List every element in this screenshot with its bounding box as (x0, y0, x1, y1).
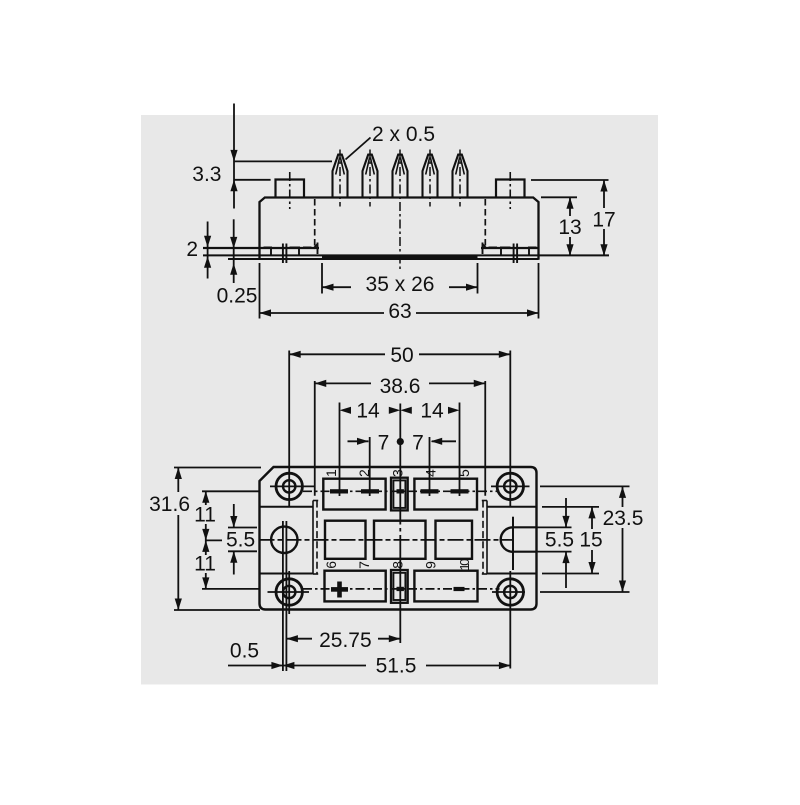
top view: pin 4 inner tip lines (426, 158, 435, 175)
dimension 23.5 (540, 485, 630, 487)
svg-text:38.6: 38.6 (380, 375, 421, 398)
dimension 0.5 (228, 665, 283, 667)
top view: pin 5 centerline (459, 150, 461, 207)
bottom view: vertical centerline lower (399, 535, 401, 643)
svg-text:7: 7 (356, 561, 372, 569)
bottom view: terminal pad 8 outer (391, 570, 408, 603)
svg-text:14: 14 (356, 400, 380, 423)
top view: right boss centerline (509, 172, 511, 209)
extension line pin5 column (459, 403, 461, 497)
bottom view: minus mark terminal 10 (454, 587, 465, 591)
svg-text:2 x 0.5: 2 x 0.5 (372, 123, 435, 146)
top view: left substrate edge (dashed) (314, 199, 316, 246)
top view: left boss centerline (289, 172, 291, 209)
svg-text:2: 2 (356, 469, 372, 477)
svg-text:63: 63 (388, 300, 411, 323)
svg-text:23.5: 23.5 (603, 507, 644, 530)
dimension 2 line and arrows (207, 222, 209, 279)
svg-text:14: 14 (420, 400, 444, 423)
svg-text:5.5: 5.5 (545, 529, 574, 552)
bottom view: center pad square 1 (325, 521, 366, 559)
extension line 38.6 left (314, 381, 316, 496)
extension line pin4 column (429, 437, 431, 496)
dimension 17 (531, 179, 609, 181)
bottom view: right lower band line (487, 573, 537, 575)
bottom view: terminal pad 4-5 (414, 479, 477, 510)
bottom view: terminal pad 3 inner (393, 480, 405, 508)
svg-text:1: 1 (323, 469, 339, 477)
top view: case bottom line left (203, 247, 319, 249)
top view: left mounting boss tab (276, 180, 305, 198)
bottom view: right upper band line (487, 506, 537, 508)
bottom view: right open slot (501, 527, 513, 552)
top view: pin 2 inner tip lines (366, 158, 375, 175)
bottom view: left upper band line (260, 506, 314, 508)
svg-text:11: 11 (194, 553, 216, 576)
svg-text:2: 2 (186, 238, 198, 261)
bottom view: terminal pad 1-2 (323, 479, 385, 510)
top view: pin 4 outline (423, 155, 438, 198)
top view: right foot cross-section marks (489, 248, 537, 256)
svg-text:15: 15 (579, 529, 602, 552)
dimension 13 (541, 196, 577, 198)
bottom view: top-left mounting hole (276, 473, 302, 499)
top view: pin 3 centerline (399, 150, 401, 271)
center reference dot (397, 438, 404, 445)
top view: 35x26 thermal contact area (thick bar) (322, 255, 478, 260)
bottom view: top-right mounting hole (497, 473, 523, 499)
bottom view: substrate dashed outline right (486, 501, 488, 575)
bottom view: vertical centerline upper (399, 404, 401, 525)
dimension 50 (289, 353, 385, 355)
dimension 35 x 26 (321, 263, 323, 294)
bottom view: pad 8 tick (397, 587, 404, 591)
svg-text:4: 4 (423, 469, 439, 477)
top view: right baseplate rivet double lines (514, 244, 518, 264)
top view: left baseplate rivet double lines (283, 244, 287, 264)
top view: pin 1 outline (333, 155, 348, 198)
extension line 38.6 right (484, 381, 486, 496)
bottom view: bottom-left mounting hole (276, 579, 302, 605)
top view: pin 2 outline (363, 155, 378, 198)
bottom view: pad row 1 centerline (303, 490, 500, 492)
svg-text:13: 13 (558, 216, 581, 239)
svg-text:35 x 26: 35 x 26 (366, 273, 435, 296)
dimension 51.5 (283, 665, 366, 667)
top view: right substrate edge (dashed) (484, 199, 486, 246)
top view: pin 1 centerline (339, 150, 341, 207)
dimension 3.3 lines and arrows (233, 104, 235, 209)
bottom view: center pad square 3 (436, 521, 473, 559)
dimension 15 (542, 506, 599, 508)
svg-text:7: 7 (378, 431, 390, 454)
dimension 5.5 right (565, 498, 567, 527)
svg-text:51.5: 51.5 (376, 655, 417, 678)
top view: module body outline (260, 198, 539, 260)
svg-text:31.6: 31.6 (149, 493, 190, 516)
bottom view: substrate dashed outline left (312, 501, 314, 575)
svg-text:6: 6 (323, 561, 339, 569)
svg-text:11: 11 (194, 504, 216, 527)
top view: pin 4 centerline (429, 150, 431, 207)
dimension 31.6 (174, 467, 261, 469)
svg-text:8: 8 (390, 561, 406, 569)
top view: baseplate bottom line (228, 258, 539, 260)
bottom view: terminal pad 8 inner (393, 573, 405, 600)
top view: pin 2 centerline (369, 150, 371, 207)
svg-text:7: 7 (412, 431, 424, 454)
svg-text:50: 50 (390, 344, 413, 367)
dimension 14 right (400, 407, 412, 414)
dimension 0.25 line and arrows (233, 219, 235, 283)
extension line pin1 column (339, 403, 341, 497)
top view: pin 5 inner tip lines (456, 158, 465, 175)
top view: pin 1 inner tip lines (336, 158, 345, 175)
bottom view: left slot hole circle (271, 527, 297, 553)
svg-text:0.25: 0.25 (217, 285, 258, 308)
top view: pin 3 outline (393, 155, 408, 198)
bottom view: left lower band line (260, 573, 314, 575)
dimension 2 x 0.5 leader line (346, 138, 371, 160)
svg-text:25.75: 25.75 (319, 629, 372, 652)
bottom view: pin contact ticks row 1 (330, 489, 348, 493)
bottom view: module outline with chamfered corner (260, 467, 537, 610)
svg-text:3.3: 3.3 (192, 163, 221, 186)
dimension 14 left (339, 400, 341, 410)
svg-text:3: 3 (390, 469, 406, 477)
top view: pin 5 outline (453, 155, 468, 198)
dimension chain 11 / 11 (202, 490, 259, 492)
gray drawing panel (141, 115, 658, 685)
bottom view: plus mark terminal 6 (331, 587, 348, 592)
bottom view: vertical centerline dash (399, 528, 401, 532)
top view: baseplate top line / 13-17 dim bottom extension (203, 254, 609, 256)
svg-text:5.5: 5.5 (226, 529, 255, 552)
svg-text:5: 5 (456, 469, 472, 477)
svg-text:17: 17 (592, 209, 615, 232)
top view: pin 3 inner tip lines (396, 158, 405, 175)
bottom view: pad row 2 centerline (303, 588, 500, 590)
dimension 7 left arrow (348, 440, 369, 442)
bottom view: terminal pad 6-7 (325, 571, 386, 602)
dimension 7 right arrow (432, 440, 456, 442)
bottom view: 0.5 offset double lines (282, 521, 284, 671)
svg-text:9: 9 (423, 561, 439, 569)
extension line pin2 column (369, 437, 371, 496)
dimension 25.75 (286, 638, 312, 640)
bottom view: bottom-right mounting hole (497, 579, 523, 605)
top view: case bottom line right (481, 247, 539, 249)
bottom view: terminal pad 9-10 (414, 571, 477, 602)
dimension 38.6 (315, 382, 371, 384)
bottom view: terminal pad 3 outer (391, 478, 408, 511)
bottom view: center pad square 2 (374, 521, 426, 559)
bottom view: middle row centerline (259, 539, 514, 541)
top view: left foot cross-section marks (264, 248, 312, 256)
dimension 63 (259, 263, 261, 319)
top view: right mounting boss tab (496, 180, 525, 198)
svg-text:0.5: 0.5 (230, 640, 259, 663)
dimension 5.5 left (228, 527, 257, 529)
